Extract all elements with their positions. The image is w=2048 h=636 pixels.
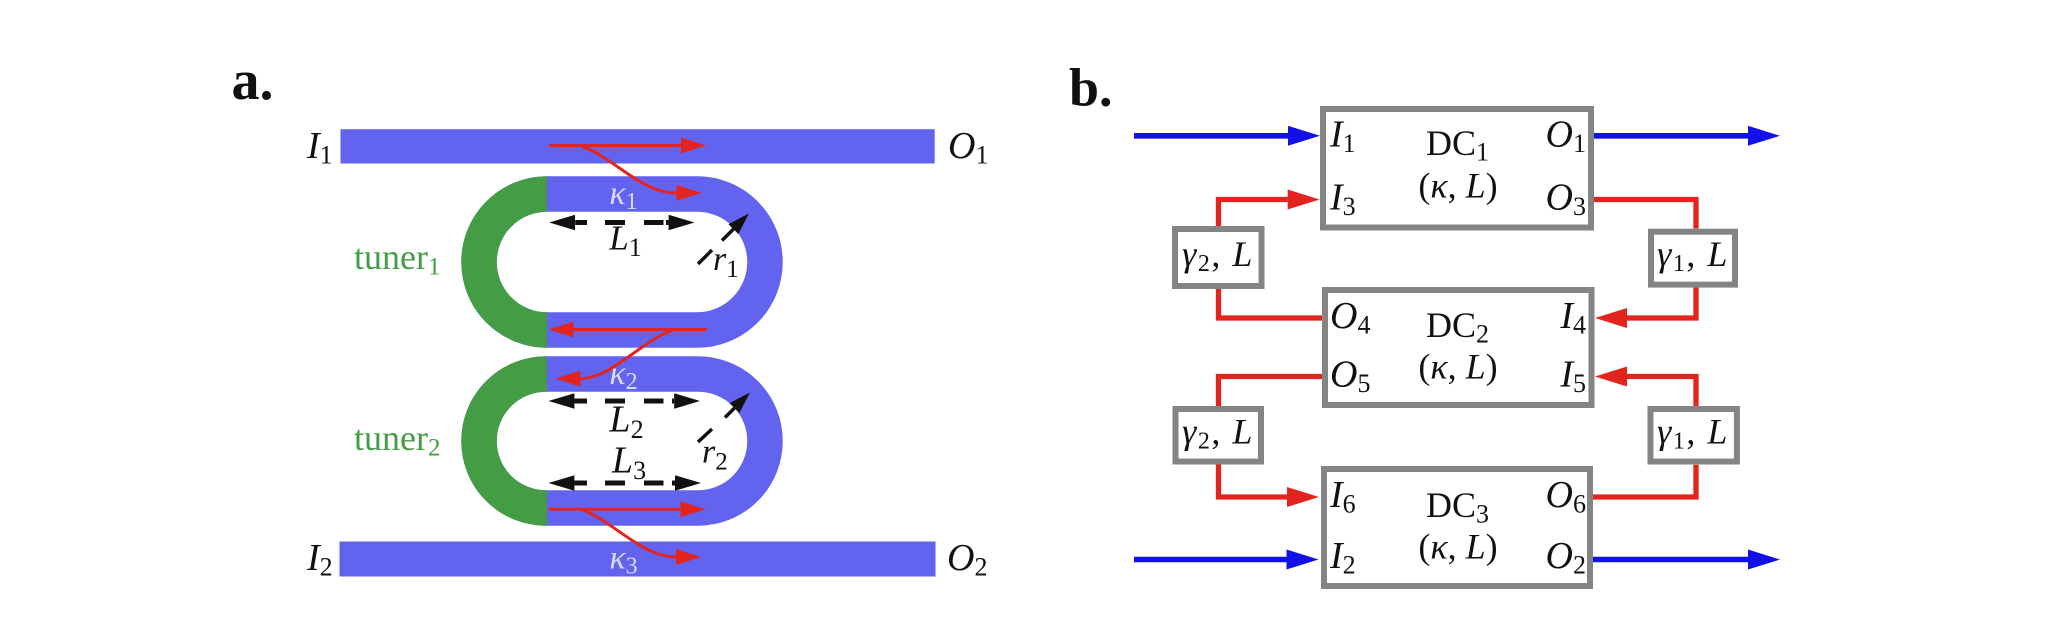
svg-text:r2: r2 — [702, 434, 728, 476]
svg-text:γ2, L: γ2, L — [1182, 412, 1254, 455]
svg-text:tuner1: tuner1 — [354, 237, 440, 281]
svg-text:L3: L3 — [611, 440, 646, 486]
svg-text:(κ, L): (κ, L) — [1418, 166, 1497, 206]
svg-text:γ1, L: γ1, L — [1657, 412, 1729, 455]
svg-text:r1: r1 — [713, 241, 739, 283]
svg-text:tuner2: tuner2 — [354, 418, 440, 462]
svg-text:γ2, L: γ2, L — [1182, 234, 1254, 277]
svg-text:O1: O1 — [948, 125, 988, 170]
svg-text:I1: I1 — [306, 125, 333, 170]
svg-text:L1: L1 — [608, 219, 641, 263]
svg-text:O2: O2 — [947, 537, 987, 582]
svg-text:a.: a. — [232, 50, 274, 112]
svg-text:L2: L2 — [608, 399, 643, 445]
svg-text:γ1, L: γ1, L — [1657, 234, 1729, 277]
svg-text:I2: I2 — [306, 537, 333, 582]
svg-text:(κ, L): (κ, L) — [1418, 347, 1497, 387]
svg-text:(κ, L): (κ, L) — [1418, 527, 1497, 567]
svg-text:b.: b. — [1069, 58, 1113, 118]
